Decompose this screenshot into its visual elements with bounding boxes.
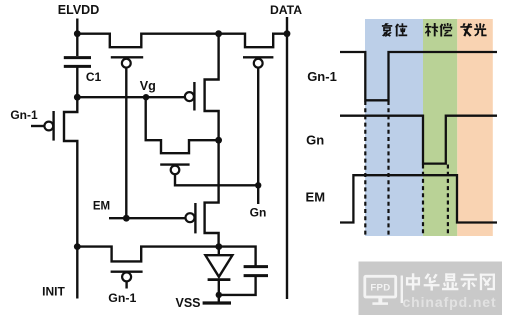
svg-text:Vg: Vg xyxy=(140,79,156,93)
svg-text:INIT: INIT xyxy=(42,284,65,298)
svg-text:VSS: VSS xyxy=(175,296,200,310)
svg-text:Gn-1: Gn-1 xyxy=(10,108,38,122)
svg-text:Gn-1: Gn-1 xyxy=(307,69,337,84)
svg-text:EM: EM xyxy=(306,190,326,205)
svg-text:EM: EM xyxy=(93,201,110,213)
svg-text:DATA: DATA xyxy=(270,3,302,17)
svg-text:ELVDD: ELVDD xyxy=(58,3,99,17)
svg-text:Gn: Gn xyxy=(250,205,267,219)
svg-text:C1: C1 xyxy=(86,70,102,84)
svg-text:Gn-1: Gn-1 xyxy=(108,291,136,305)
svg-text:FPD: FPD xyxy=(370,283,390,294)
svg-text:Gn: Gn xyxy=(306,132,324,147)
svg-text:chinafpd.net: chinafpd.net xyxy=(403,294,497,310)
